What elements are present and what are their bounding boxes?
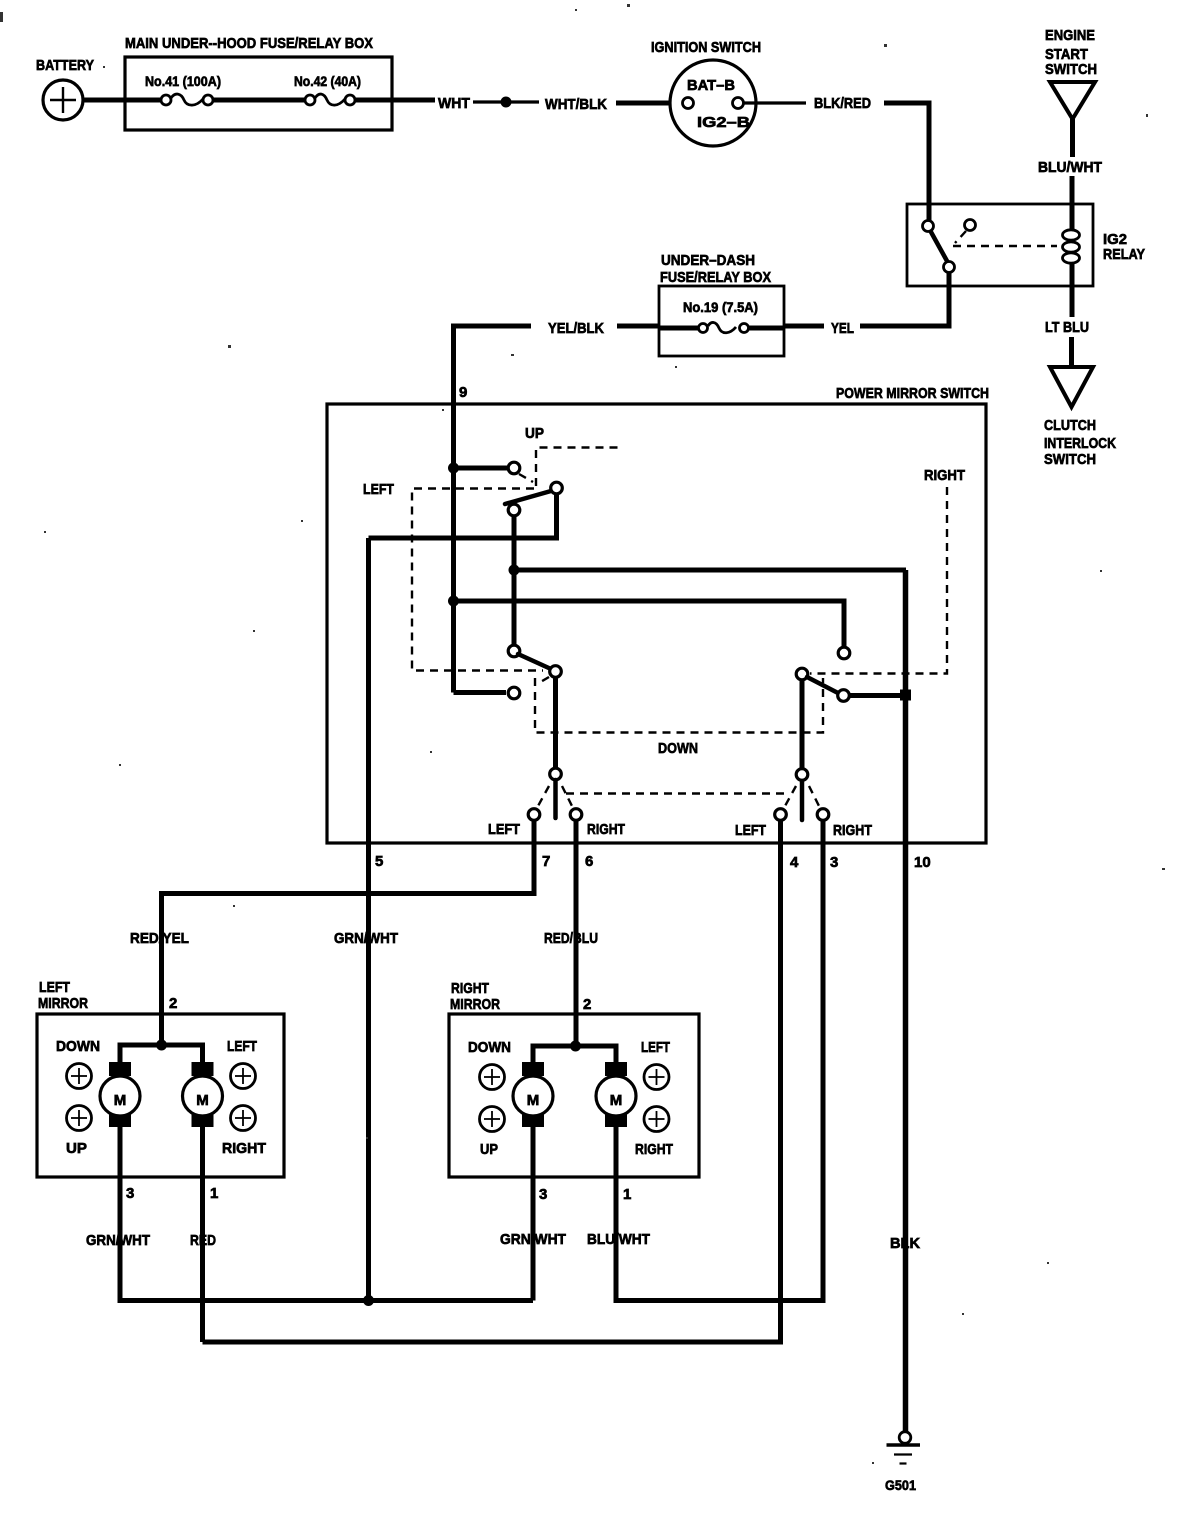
node junction on pin9 wire lower	[448, 596, 459, 607]
svg-text:UP: UP	[66, 1140, 87, 1157]
node junction right mirror pin2	[570, 1041, 581, 1052]
selector dashed fan right	[785, 786, 819, 806]
svg-text:WHT/BLK: WHT/BLK	[545, 96, 607, 113]
wire pin7 to left mirror pin2 (RED/YEL)	[162, 821, 535, 1045]
selector pivot left	[550, 768, 562, 780]
svg-text:BATTERY: BATTERY	[36, 57, 94, 74]
svg-text:G501: G501	[885, 1477, 916, 1493]
svg-text:SWITCH: SWITCH	[1045, 61, 1097, 78]
svg-text:DOWN: DOWN	[56, 1038, 100, 1055]
contact arm pivot lower-left	[550, 666, 562, 678]
svg-text:DOWN: DOWN	[468, 1039, 511, 1056]
wire lower-left pivot down to selector	[553, 678, 558, 768]
contact arm pivot right switch	[796, 668, 808, 680]
pin number labels	[375, 853, 931, 871]
wire YEL to under-dash fuse box	[784, 324, 824, 329]
svg-text:IG2–B: IG2–B	[697, 114, 750, 131]
dashed DOWN linkage box	[535, 677, 823, 733]
svg-text:UP: UP	[480, 1141, 498, 1158]
wire ignition IG2-B terminal right	[744, 101, 806, 104]
relay contact NO	[965, 220, 976, 231]
node junction to wire 10	[509, 565, 520, 576]
engine start switch connector triangle	[1050, 82, 1095, 119]
svg-text:BLK: BLK	[890, 1235, 920, 1252]
relay actuation dashed link	[953, 231, 1057, 246]
node junction on pin9 wire to UP contact	[448, 463, 459, 474]
node junction GRN/WHT bus with pin5 wire	[363, 1295, 374, 1306]
wire right mirror feed to both motors	[533, 1046, 616, 1064]
svg-text:3: 3	[830, 854, 838, 871]
wire pivot down and left to pin 5	[369, 495, 557, 539]
svg-text:3: 3	[539, 1186, 547, 1203]
relay switch arm	[931, 232, 947, 261]
IG2 relay box	[907, 204, 1093, 286]
selector arm left	[553, 780, 558, 818]
motor M right-mirror up/down	[513, 1062, 553, 1127]
svg-text:GRN/WHT: GRN/WHT	[86, 1232, 150, 1249]
svg-text:BLK/RED: BLK/RED	[814, 95, 871, 112]
wire under-dash box to YEL/BLK label	[617, 324, 659, 329]
svg-text:GRN/WHT: GRN/WHT	[334, 930, 398, 947]
svg-text:YEL/BLK: YEL/BLK	[548, 320, 604, 337]
node junction left mirror pin2	[156, 1040, 167, 1051]
right mirror adjuster symbols	[480, 1065, 670, 1132]
wire junction to UP contact	[454, 466, 508, 471]
svg-text:No.19 (7.5A): No.19 (7.5A)	[683, 299, 758, 315]
contact pin6 RIGHT	[570, 809, 582, 821]
wire relay coil to LT BLU	[1070, 262, 1075, 317]
wire right mirror pin3 down	[531, 1127, 536, 1301]
svg-text:DOWN: DOWN	[658, 740, 698, 757]
wire left mirror feed to both motors	[120, 1045, 203, 1064]
wire relay common to YEL	[860, 272, 949, 326]
left mirror pin labels	[126, 1185, 218, 1202]
IG2 relay label	[1103, 231, 1145, 263]
wire junction across to right switch contact	[454, 601, 845, 646]
wire fuse No.42 to WHT label	[355, 98, 435, 103]
left mirror box	[37, 979, 284, 1177]
ignition switch	[651, 39, 761, 146]
clutch interlock switch connector triangle	[1050, 367, 1093, 407]
wire LT BLU to clutch interlock switch	[1069, 337, 1074, 366]
svg-text:No.41 (100A): No.41 (100A)	[145, 73, 221, 89]
svg-text:5: 5	[375, 853, 383, 870]
fuse No.19 (7.5A)	[659, 299, 784, 333]
svg-text:9: 9	[459, 384, 467, 401]
selector pivot right	[796, 769, 808, 781]
ground G501	[885, 1432, 920, 1493]
svg-text:1: 1	[623, 1186, 631, 1203]
right mirror direction labels	[468, 1039, 673, 1158]
motor M left-mirror up/down	[100, 1062, 140, 1127]
wire BLU/WHT right mirror pin1 to switch pin3	[616, 821, 823, 1301]
wire WHT to WHT/BLK with splice	[473, 100, 539, 103]
svg-text:RELAY: RELAY	[1103, 246, 1145, 263]
wire left mirror pin3 down	[118, 1127, 123, 1298]
wire YEL/BLK corner down to switch pin 9	[454, 326, 532, 693]
dashed LEFT linkage box	[412, 489, 549, 685]
svg-text:WHT: WHT	[438, 95, 470, 112]
selector arm right	[800, 781, 805, 820]
svg-text:M: M	[196, 1092, 209, 1109]
svg-text:IGNITION SWITCH: IGNITION SWITCH	[651, 39, 761, 56]
svg-text:BLU/WHT: BLU/WHT	[587, 1231, 650, 1248]
contact below UP	[508, 504, 520, 516]
svg-text:M: M	[114, 1092, 127, 1109]
contact pin4 LEFT	[775, 809, 787, 821]
svg-text:POWER MIRROR SWITCH: POWER MIRROR SWITCH	[836, 385, 989, 402]
wire right contact to pin10 rail	[850, 693, 903, 698]
svg-text:LEFT: LEFT	[735, 822, 766, 839]
wire pin9 end to lower left contact	[454, 690, 507, 695]
contact lower-left of left switch	[508, 687, 520, 699]
svg-text:LEFT: LEFT	[227, 1038, 257, 1055]
svg-text:M: M	[610, 1092, 623, 1109]
svg-text:LT BLU: LT BLU	[1045, 319, 1089, 336]
wire right pivot down to selector	[800, 680, 805, 768]
svg-text:LEFT: LEFT	[641, 1039, 670, 1056]
wire fuse No.41 to fuse No.42	[213, 98, 305, 103]
relay contact top	[923, 221, 934, 232]
clutch interlock switch label	[1044, 417, 1116, 468]
contact pin7 LEFT	[528, 809, 540, 821]
svg-text:M: M	[527, 1092, 540, 1109]
wire pin 5 vertical	[366, 538, 371, 1301]
contact arm pivot upper	[551, 482, 563, 494]
wire right mirror pin1 down	[614, 1127, 619, 1298]
relay contact common	[944, 262, 955, 273]
wire BLU/WHT into relay coil	[1070, 176, 1075, 231]
svg-text:2: 2	[169, 995, 177, 1012]
contact right switch lower	[838, 690, 850, 702]
battery	[36, 57, 94, 120]
right mirror pin labels	[539, 1186, 631, 1203]
switch arm lower left	[518, 654, 551, 669]
svg-text:4: 4	[790, 854, 799, 871]
wire RED left mirror pin1 to switch pin4	[203, 821, 781, 1342]
dashed RIGHT linkage	[810, 487, 947, 674]
svg-text:SWITCH: SWITCH	[1044, 451, 1096, 468]
svg-text:RIGHT: RIGHT	[451, 980, 489, 997]
svg-text:RED/YEL: RED/YEL	[130, 930, 189, 947]
engine start switch label	[1045, 27, 1097, 78]
power mirror switch box	[327, 385, 989, 843]
svg-text:2: 2	[583, 996, 591, 1013]
right mirror box	[449, 980, 699, 1177]
wire BLK/RED to IG2 relay contact	[884, 103, 929, 222]
svg-text:MIRROR: MIRROR	[38, 995, 88, 1012]
svg-text:RIGHT: RIGHT	[833, 822, 872, 839]
svg-text:MIRROR: MIRROR	[450, 996, 500, 1013]
dashed UP linkage	[519, 448, 620, 487]
svg-text:RIGHT: RIGHT	[924, 467, 965, 484]
svg-text:10: 10	[914, 854, 931, 871]
left mirror direction labels	[56, 1038, 266, 1157]
fuse No.41 (100A)	[145, 73, 221, 105]
wire junction across to pin 10 rail	[514, 568, 906, 573]
svg-text:GRN/WHT: GRN/WHT	[500, 1231, 566, 1248]
node splice WHT / WHT-BLK	[501, 97, 512, 108]
svg-text:LEFT: LEFT	[363, 481, 394, 498]
svg-text:YEL: YEL	[831, 320, 854, 337]
svg-text:BAT–B: BAT–B	[687, 77, 735, 94]
svg-text:6: 6	[585, 853, 593, 870]
contact top of lower-left switch	[508, 645, 520, 657]
svg-text:INTERLOCK: INTERLOCK	[1044, 435, 1116, 452]
svg-text:BLU/WHT: BLU/WHT	[1038, 159, 1102, 176]
wire engine start to BLU/WHT	[1070, 119, 1075, 157]
wire pin 10 rail vertical	[903, 570, 909, 1433]
contact right switch upper	[838, 647, 850, 659]
svg-text:FUSE/RELAY BOX: FUSE/RELAY BOX	[660, 269, 771, 286]
svg-text:7: 7	[542, 853, 550, 870]
wire pin6 to right mirror pin2 (RED/BLU)	[574, 821, 579, 1046]
svg-text:RIGHT: RIGHT	[222, 1140, 266, 1157]
wire from contact under UP down	[512, 516, 517, 645]
svg-text:1: 1	[210, 1185, 218, 1202]
svg-text:LEFT: LEFT	[39, 979, 70, 996]
fuse No.42 (40A)	[294, 73, 361, 105]
svg-text:3: 3	[126, 1185, 134, 1202]
svg-text:RED: RED	[190, 1232, 216, 1249]
under-dash fuse/relay box	[659, 252, 784, 356]
svg-text:LEFT: LEFT	[488, 821, 520, 838]
motor M left-mirror left/right	[183, 1062, 223, 1127]
switch arm right	[807, 677, 838, 693]
svg-text:ENGINE: ENGINE	[1045, 27, 1095, 44]
node junction on pin10 rail	[900, 690, 911, 701]
wire battery to fuse No.41	[82, 98, 162, 103]
svg-text:RIGHT: RIGHT	[635, 1141, 673, 1158]
contact pin3 RIGHT	[817, 809, 829, 821]
selector dashed fan left	[538, 786, 572, 806]
relay coil	[1063, 230, 1080, 263]
contact UP (left switch)	[508, 462, 520, 474]
svg-text:RED/BLU: RED/BLU	[544, 930, 598, 947]
svg-text:MAIN UNDER--HOOD FUSE/RELAY BO: MAIN UNDER--HOOD FUSE/RELAY BOX	[125, 35, 373, 52]
wire left mirror pin1 down	[200, 1127, 205, 1342]
wire WHT/BLK to ignition switch	[616, 101, 684, 106]
switch arm upper left	[505, 491, 551, 504]
svg-text:CLUTCH: CLUTCH	[1044, 417, 1096, 434]
svg-text:UP: UP	[525, 425, 544, 442]
left mirror adjuster symbols	[67, 1064, 256, 1131]
svg-text:UNDER–DASH: UNDER–DASH	[661, 252, 755, 269]
svg-text:No.42 (40A): No.42 (40A)	[294, 73, 361, 89]
main under-hood fuse/relay box	[125, 35, 392, 130]
dashed selector linkage	[566, 792, 790, 794]
wire GRN/WHT bus left mirror pin3 to right mirror pin3	[120, 1298, 533, 1301]
motor M right-mirror left/right	[596, 1062, 636, 1127]
svg-text:RIGHT: RIGHT	[587, 821, 625, 838]
